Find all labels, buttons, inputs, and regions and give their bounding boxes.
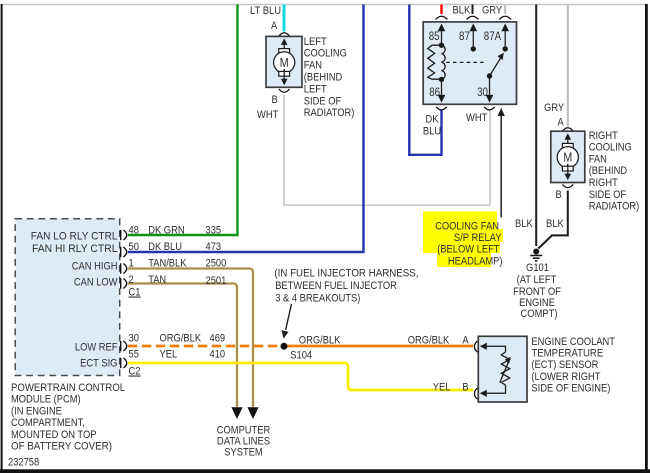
border frame top line: [2, 4, 646, 6]
svg-text:ECT SIG: ECT SIG: [80, 357, 117, 369]
svg-text:ENGINE COOLANT: ENGINE COOLANT: [531, 336, 615, 348]
right fan connector arc below: [563, 184, 574, 187]
svg-text:WHT: WHT: [257, 109, 279, 121]
svg-text:A: A: [558, 117, 565, 129]
relay pin 30 lead with down arrow: [487, 73, 492, 78]
ECT sensor variable arrow across thermistor: [500, 362, 509, 383]
wire ORG/BLK dashed from PCM pin 30 to splice S104: [128, 345, 280, 348]
relay coil top node dot: [439, 43, 444, 48]
svg-text:POWERTRAIN CONTROL: POWERTRAIN CONTROL: [11, 382, 125, 394]
wire TAN/BLK from PCM pin 1 down to computer data lines: [128, 269, 253, 408]
splice callout leader arrow to S104: [286, 304, 292, 330]
svg-text:RIGHT: RIGHT: [589, 177, 618, 189]
ECT sensor thermistor zigzag: [501, 352, 509, 385]
relay actuation dashed line: [446, 61, 483, 63]
svg-text:MOUNTED ON TOP: MOUNTED ON TOP: [11, 429, 97, 441]
right fan description text: [589, 130, 640, 213]
svg-text:BLK: BLK: [546, 218, 564, 230]
svg-text:ORG/BLK: ORG/BLK: [299, 335, 341, 347]
svg-text:COOLING: COOLING: [304, 48, 347, 60]
svg-text:30: 30: [477, 87, 488, 99]
svg-text:48: 48: [129, 225, 139, 237]
svg-text:(AT LEFT: (AT LEFT: [517, 274, 557, 286]
left cooling fan motor M1 box: [266, 36, 302, 87]
right fan motor brush top: [562, 143, 573, 148]
svg-text:C2: C2: [129, 366, 141, 378]
svg-text:DK GRN: DK GRN: [148, 225, 184, 237]
svg-text:86: 86: [429, 87, 440, 99]
PCM pin 48 connector bracket: [120, 230, 122, 240]
svg-text:RADIATOR): RADIATOR): [589, 201, 640, 213]
left fan motor brush top: [279, 49, 290, 54]
relay callout text COOLING FAN S/P RELAY: [435, 221, 502, 268]
ECT sensor box: [478, 336, 527, 402]
svg-text:SIDE OF: SIDE OF: [589, 189, 627, 201]
wire BLK from top edge down to ground G101: [535, 5, 537, 247]
ECT sensor connector arc pin A: [474, 341, 478, 352]
svg-text:WHT: WHT: [466, 112, 488, 124]
svg-text:87A: 87A: [484, 31, 502, 43]
left fan motor brush bottom: [279, 71, 290, 76]
relay coil winding arcs: [442, 45, 446, 79]
relay pin 86 lead with down arrow: [441, 79, 443, 97]
svg-text:ORG/BLK: ORG/BLK: [160, 333, 202, 345]
svg-text:SIDE OF: SIDE OF: [304, 95, 342, 107]
PCM pin 1 connector bracket: [120, 263, 122, 273]
wire ORG/BLK solid from S104 to ECT sensor pin A: [288, 345, 474, 348]
svg-text:TAN: TAN: [148, 274, 166, 286]
label COMPUTER DATA LINES SYSTEM: [217, 425, 270, 459]
svg-text:A: A: [271, 20, 278, 32]
relay coil zigzag (resistor part): [428, 45, 442, 79]
svg-text:335: 335: [206, 225, 222, 237]
svg-text:SIDE OF ENGINE): SIDE OF ENGINE): [531, 383, 610, 395]
svg-text:LT BLU: LT BLU: [250, 5, 281, 17]
ground G101 node dot: [533, 249, 539, 255]
svg-text:232758: 232758: [8, 457, 39, 469]
svg-text:B: B: [556, 189, 562, 201]
wire DK GRN from PCM pin 48 to top edge: [128, 5, 238, 236]
svg-text:COMPARTMENT,: COMPARTMENT,: [11, 417, 85, 429]
svg-text:YEL: YEL: [160, 349, 178, 361]
svg-text:S104: S104: [290, 350, 312, 362]
wire BLK stub above relay pin 87: [472, 5, 474, 15]
wire DK BLU from relay pin 86 down, left, up to top edge: [409, 5, 441, 155]
relay connector arc above pin 87: [467, 16, 479, 19]
svg-text:1: 1: [129, 257, 134, 269]
svg-text:DK: DK: [426, 114, 440, 126]
svg-text:2500: 2500: [206, 257, 227, 269]
right cooling fan motor M2 box: [551, 131, 585, 182]
svg-text:55: 55: [129, 349, 139, 361]
wire YEL from PCM pin 55 to ECT sensor pin B: [128, 363, 474, 390]
svg-text:473: 473: [206, 241, 222, 253]
relay switch blade with arrow toward 87A: [490, 57, 502, 76]
svg-text:3 & 4 BREAKOUTS): 3 & 4 BREAKOUTS): [275, 293, 360, 305]
relay connector arc below pin 86: [436, 107, 447, 110]
svg-text:MODULE (PCM): MODULE (PCM): [11, 394, 81, 406]
relay pin 87A lead with up arrow: [503, 46, 508, 51]
relay coil bottom node dot: [439, 77, 444, 82]
border frame right bar: [645, 4, 648, 471]
svg-text:GRY: GRY: [544, 102, 565, 114]
svg-text:B: B: [272, 94, 278, 106]
svg-text:FAN: FAN: [304, 60, 322, 72]
svg-text:2501: 2501: [206, 275, 227, 287]
svg-text:LEFT: LEFT: [304, 83, 327, 95]
right fan motor brush bottom: [562, 166, 573, 171]
splice callout text (IN FUEL INJECTOR HARNESS...): [274, 267, 418, 304]
svg-text:FAN LO RLY CTRL: FAN LO RLY CTRL: [31, 231, 118, 243]
wire GRY from top edge down to right fan pin A: [567, 5, 569, 127]
svg-text:COMPT): COMPT): [521, 308, 558, 320]
right fan motor up arrow: [567, 136, 569, 151]
relay connector arc below pin 30: [484, 107, 495, 110]
svg-text:RADIATOR): RADIATOR): [304, 107, 355, 119]
svg-text:DK BLU: DK BLU: [148, 241, 182, 253]
svg-text:87: 87: [459, 31, 470, 43]
relay connector arc above pin 85: [436, 16, 448, 19]
PCM module box (powertrain control module): [15, 219, 120, 376]
border frame left bar: [1, 4, 3, 471]
svg-text:TAN/BLK: TAN/BLK: [148, 257, 187, 269]
svg-text:CAN HIGH: CAN HIGH: [72, 261, 118, 273]
svg-text:LEFT: LEFT: [304, 36, 327, 48]
svg-text:GRY: GRY: [482, 5, 503, 17]
yellow highlight blobs: [423, 212, 503, 268]
wire TAN from PCM pin 2 down to computer data lines: [128, 284, 237, 408]
left fan motor circle M: [274, 52, 295, 73]
wire GRY stub above relay pin 87A: [504, 5, 506, 15]
svg-text:(BELOW LEFT: (BELOW LEFT: [437, 243, 500, 255]
wire LT BLU from top edge to left fan pin A: [283, 5, 286, 32]
ECT sensor connector arc pin B: [474, 388, 478, 399]
svg-text:(BEHIND: (BEHIND: [304, 72, 342, 84]
svg-text:C1: C1: [129, 287, 141, 299]
arrowhead TAN wire: [231, 407, 242, 419]
wire RED stub above relay pin 85: [440, 5, 442, 15]
relay callout leader arrow: [500, 113, 502, 218]
ground G101 symbol bars: [530, 256, 542, 261]
ground G101 text: [513, 262, 561, 320]
left fan connector arc above: [279, 33, 290, 36]
PCM pin 30 connector bracket: [120, 341, 122, 351]
svg-text:(IN ENGINE: (IN ENGINE: [11, 405, 62, 417]
wire BLK from right fan pin B down to ground G101: [538, 191, 568, 249]
svg-text:CAN LOW: CAN LOW: [74, 277, 118, 289]
svg-text:OF BATTERY COVER): OF BATTERY COVER): [11, 441, 112, 453]
svg-text:FAN HI RLY CTRL: FAN HI RLY CTRL: [32, 243, 118, 255]
svg-text:HEADLAMP): HEADLAMP): [448, 255, 503, 267]
svg-text:BETWEEN FUEL INJECTOR: BETWEEN FUEL INJECTOR: [275, 280, 397, 292]
ECT sensor pin B lead with left arrow: [485, 385, 506, 393]
PCM pin 55 connector bracket: [120, 358, 122, 368]
relay pin 87 lead with up arrow: [471, 46, 476, 51]
ECT sensor pin A lead with left arrow: [485, 346, 506, 352]
left fan connector arc below: [279, 89, 290, 92]
svg-text:FAN: FAN: [589, 153, 607, 165]
splice S104: [281, 343, 288, 350]
PCM pin 2 connector bracket: [120, 278, 122, 288]
svg-text:(BEHIND: (BEHIND: [589, 165, 627, 177]
svg-text:A: A: [462, 335, 469, 347]
svg-text:SYSTEM: SYSTEM: [224, 446, 262, 458]
relay pin 85 lead with up arrow: [441, 29, 443, 46]
svg-text:ORG/BLK: ORG/BLK: [408, 335, 450, 347]
relay connector arc above pin 87A: [499, 16, 511, 19]
left fan motor down arrow: [283, 69, 285, 82]
svg-text:COOLING: COOLING: [589, 142, 632, 154]
wire DK BLU from PCM pin 50 to top edge: [128, 5, 364, 253]
svg-text:B: B: [462, 381, 468, 393]
border frame bottom bar: [0, 469, 650, 473]
label DK BLU below relay: [423, 114, 441, 138]
arrowhead TAN/BLK wire: [247, 407, 258, 419]
svg-text:469: 469: [210, 333, 226, 345]
right fan connector arc above: [563, 128, 574, 131]
svg-text:(ECT) SENSOR: (ECT) SENSOR: [531, 359, 598, 371]
svg-text:COOLING FAN: COOLING FAN: [435, 221, 499, 233]
svg-text:410: 410: [210, 349, 226, 361]
svg-text:2: 2: [129, 274, 134, 286]
svg-text:LOW REF: LOW REF: [75, 341, 118, 353]
svg-text:BLK: BLK: [515, 218, 533, 230]
svg-text:85: 85: [429, 31, 440, 43]
PCM pin 50 connector bracket: [120, 247, 122, 257]
PCM description text: [11, 382, 125, 453]
right fan motor circle M: [557, 147, 578, 168]
svg-text:M: M: [563, 151, 572, 165]
svg-text:BLU: BLU: [423, 126, 441, 138]
wire WHT from left fan B down, right, up to relay pin 30: [284, 95, 490, 206]
svg-text:30: 30: [129, 333, 139, 345]
svg-text:M: M: [280, 56, 289, 70]
svg-text:G101: G101: [526, 262, 549, 274]
cooling fan relay box U1: [423, 22, 516, 104]
svg-text:YEL: YEL: [433, 381, 451, 393]
svg-text:TEMPERATURE: TEMPERATURE: [531, 348, 603, 360]
svg-text:BLK: BLK: [453, 5, 471, 17]
svg-text:(IN FUEL INJECTOR HARNESS,: (IN FUEL INJECTOR HARNESS,: [274, 267, 418, 279]
svg-text:(LOWER RIGHT: (LOWER RIGHT: [531, 371, 600, 383]
svg-text:50: 50: [129, 241, 139, 253]
left fan motor up arrow: [283, 42, 285, 57]
svg-text:RIGHT: RIGHT: [589, 130, 618, 142]
left fan description text: [304, 36, 355, 119]
ECT sensor description text: [531, 336, 615, 395]
right fan motor down arrow: [567, 164, 569, 177]
